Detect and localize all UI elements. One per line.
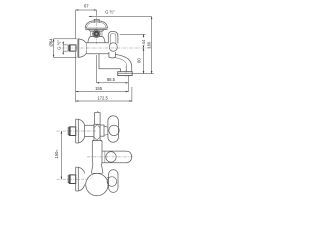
front view: riser tube (92, 140, 102, 163)
dimension 88.5 (97, 77, 129, 83)
front view: upper handle connector (100, 125, 108, 136)
handle axis centerline (96, 17, 98, 44)
bonnet (88, 29, 104, 31)
dimension 172.5 (76, 95, 132, 102)
front view: spout (102, 151, 132, 163)
front view: upper union centerline (57, 130, 97, 132)
dimension 155 (76, 86, 129, 92)
dimension 44 (120, 34, 146, 48)
body end boss (109, 43, 117, 52)
front view: valve block (94, 124, 100, 140)
shower connector stub (94, 19, 100, 22)
front view: lower handle connector (107, 178, 109, 186)
spout outlet flange (118, 66, 133, 77)
front view: upper union nipple (68, 127, 76, 136)
centerline main axis (62, 47, 152, 49)
front view: shower stub pipe (95, 112, 101, 125)
front view: spout centerline (87, 156, 134, 158)
dimension 67 (projection to handle axis) (76, 4, 97, 39)
svg-text:44: 44 (141, 39, 146, 44)
front view: lower handle (107, 170, 118, 193)
svg-text:166: 166 (147, 41, 152, 49)
spout curved outlet (99, 54, 132, 72)
svg-text:Ø64: Ø64 (49, 38, 54, 47)
dimension 150 between unions (54, 131, 62, 179)
front view: lower union nipple (68, 175, 76, 184)
svg-text:67: 67 (84, 4, 89, 9)
svg-text:155: 155 (95, 86, 103, 91)
handle skirt (88, 37, 105, 43)
svg-text:172.5: 172.5 (97, 95, 108, 100)
handle screw boss (91, 30, 102, 38)
dimension diameter 64 escutcheon (49, 38, 77, 58)
label G 1/2 inch top connector (89, 10, 152, 18)
valve body cylinder (86, 43, 109, 54)
wall union nipple G1/2 (68, 45, 76, 51)
front view: lower union centerline (57, 178, 89, 180)
extension line spout outlet level (132, 73, 154, 75)
extension line handle axis (96, 55, 98, 83)
extension line spout outlet (128, 75, 132, 101)
svg-text:80: 80 (136, 58, 141, 63)
front view: lower escutcheon (76, 167, 85, 191)
front view: upper body block (85, 125, 94, 136)
front view: upper escutcheon (76, 119, 85, 143)
front view: neck to ball (91, 164, 103, 174)
svg-text:150≈: 150≈ (54, 149, 59, 159)
front view: upper handle (108, 116, 119, 143)
extension line wall plane (75, 52, 77, 102)
dimension 80 (136, 48, 144, 74)
front view: spout ball (86, 173, 108, 195)
svg-text:88.5: 88.5 (107, 77, 116, 82)
svg-text:G ½": G ½" (105, 10, 115, 15)
dimension 166 overall height (147, 17, 153, 74)
escutcheon flange (78, 39, 86, 58)
svg-text:G ½": G ½" (56, 40, 61, 50)
handle dome (85, 21, 107, 30)
spout nut (109, 52, 116, 58)
diverter arch (108, 31, 118, 43)
label G 1/2 inch wall union (56, 40, 68, 55)
